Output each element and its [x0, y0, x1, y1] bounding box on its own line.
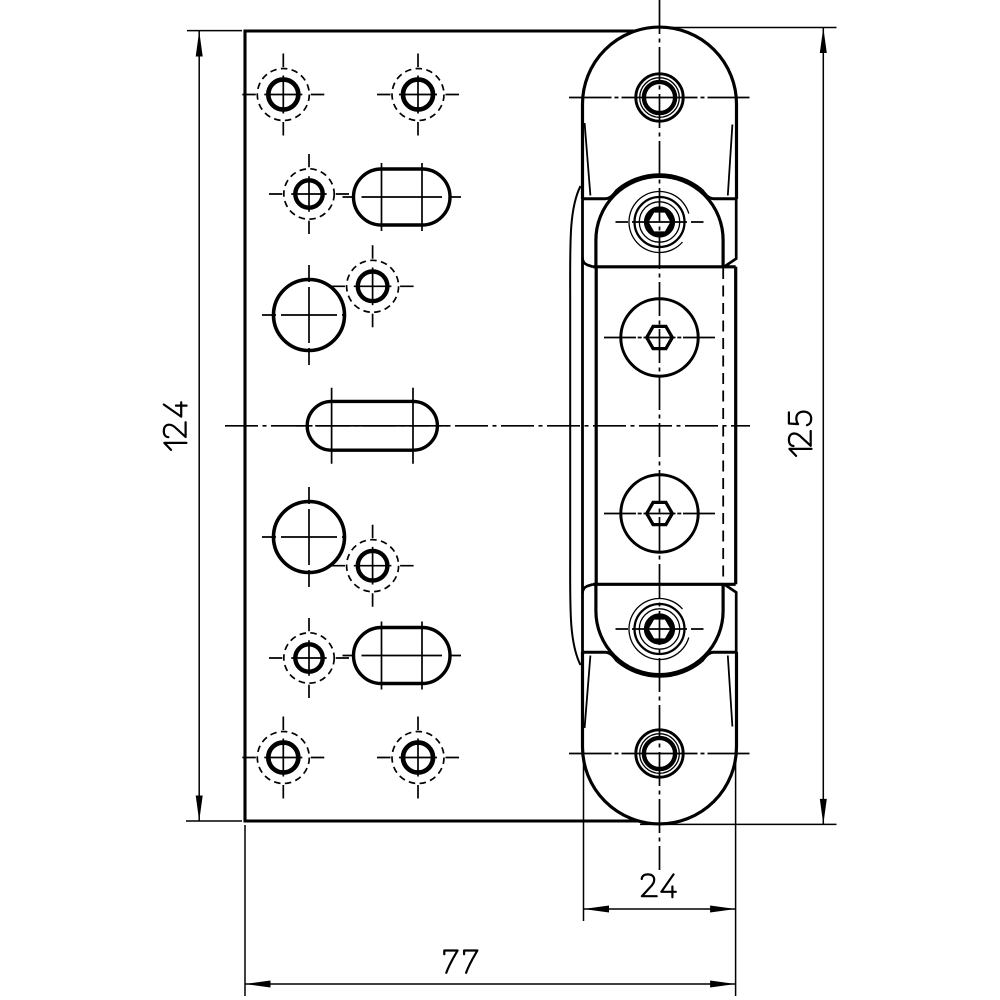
- washer screw upper: [604, 299, 715, 376]
- hole A2 top-right counterbored: [377, 54, 459, 136]
- knuckle lower side chamfers: [583, 584, 737, 652]
- dimension 124 left: [164, 31, 242, 821]
- hinge hidden edge dashed: [722, 268, 724, 583]
- knuckle upper screw: [616, 191, 704, 252]
- knuckle upper ledges: [583, 190, 737, 199]
- hinge top cap outline: [583, 27, 737, 199]
- hole G2 bottom-right counterbored: [377, 717, 459, 799]
- hole F1 counterbored: [269, 618, 349, 698]
- hinge bottom cap outline: [583, 652, 737, 824]
- knuckle upper side chamfers: [583, 199, 737, 267]
- knuckle lower screw: [616, 599, 704, 660]
- hole C2 counterbored: [332, 245, 414, 327]
- hinge body rectangle: [593, 267, 736, 585]
- hole B1 counterbored: [269, 154, 349, 234]
- knuckle upper cap bottom arc: [618, 174, 702, 189]
- plate outline (77 x 124 mounting plate): [245, 31, 638, 821]
- hinge top cap inner edges: [585, 123, 733, 196]
- knuckle lower ledges: [583, 652, 737, 661]
- hinge left flange vertical edge: [581, 199, 584, 652]
- dimension 125 right: [640, 28, 837, 825]
- hinge left flange outer arc: [570, 186, 580, 665]
- hole E1 large plain: [262, 487, 345, 587]
- hole C1 large plain: [262, 265, 345, 365]
- centerline main horizontal: [225, 425, 750, 427]
- top cap screw: [569, 74, 750, 121]
- knuckle upper dome: [596, 176, 723, 266]
- knuckle lower cap top arc: [618, 662, 702, 677]
- hinge vertical centerline: [659, 0, 661, 870]
- hole A1 top-left counterbored: [242, 54, 324, 136]
- slot F2 obround: [343, 622, 462, 690]
- bottom cap screw: [569, 730, 750, 777]
- hinge bottom cap inner edges: [585, 656, 733, 729]
- washer screw lower: [604, 475, 715, 552]
- hole E2 counterbored: [332, 525, 414, 607]
- dimension 24 bottom middle: [584, 752, 736, 996]
- dimension 77 bottom: [245, 825, 736, 996]
- hole G1 bottom-left counterbored: [242, 717, 324, 799]
- knuckle lower dome: [596, 584, 723, 674]
- slot D middle obround: [296, 388, 448, 464]
- slot B2 obround: [343, 163, 462, 231]
